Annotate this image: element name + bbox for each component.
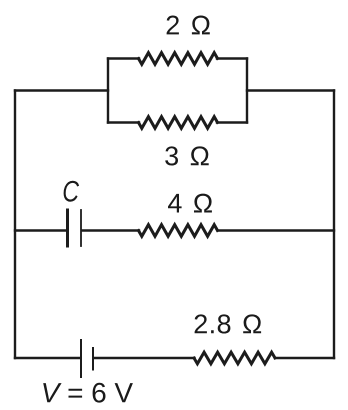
label 4 ohm <box>168 194 212 213</box>
label 2 ohm <box>167 16 210 35</box>
wire middle branch right <box>218 229 335 231</box>
capacitor C left plate <box>66 210 69 246</box>
resistor 2.8-ohm zigzag <box>194 352 275 364</box>
wire battery to 2.8-ohm resistor <box>94 357 195 359</box>
battery V short plate <box>92 348 94 370</box>
capacitor C right plate <box>80 210 82 246</box>
label V = 6 V <box>43 383 133 403</box>
wire top-left to parallel box <box>15 89 108 91</box>
wire lower parallel branch left lead <box>108 121 139 123</box>
battery V long plate <box>80 340 82 377</box>
wire middle branch left <box>15 229 67 231</box>
wire top-right from parallel box <box>247 89 334 91</box>
wire bottom left to battery <box>15 357 80 359</box>
resistor 3-ohm zigzag <box>139 117 218 129</box>
resistor 4-ohm zigzag <box>139 225 218 237</box>
wire top branch left lead <box>108 57 139 59</box>
wire top branch right lead <box>217 57 247 59</box>
resistor 2-ohm zigzag <box>139 53 218 65</box>
node parallel-box right junction <box>246 59 248 123</box>
wire lower parallel branch right lead <box>217 121 247 123</box>
node parallel-box left junction <box>107 59 109 123</box>
label capacitor C <box>64 181 80 202</box>
wire bottom right <box>275 357 334 359</box>
wire right vertical <box>333 91 335 359</box>
wire capacitor to 4-ohm resistor <box>82 229 139 231</box>
label 2.8 ohm <box>195 314 262 333</box>
label 3 ohm <box>165 146 209 165</box>
wire left vertical <box>14 91 16 359</box>
